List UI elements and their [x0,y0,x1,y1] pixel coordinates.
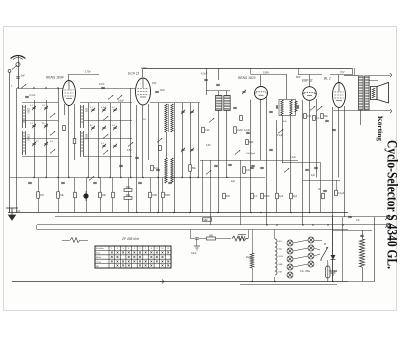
wire lamp link b [293,248,308,251]
mains switch S13 [320,243,328,260]
svg-text:100,2kpF: 100,2kpF [246,153,256,155]
wire to hook top [369,75,390,77]
resistor R9 [313,116,316,121]
resistor R15 20k [99,192,102,198]
resistor R18 963 [124,197,132,200]
wire V1 cathode pin [64,104,66,115]
wire component row drop x113 [112,178,114,213]
pick-up jack TA1 [386,215,390,219]
wire T1 secondary drop [226,111,228,178]
switch contact S14 [206,170,211,174]
wire chain drop [190,230,192,239]
capacitor C1 3nF [16,77,20,78]
capacitor C38 10nF [195,238,199,239]
resistor R30 [322,193,325,199]
coil L10 diode load [295,101,297,112]
resistor R8 1W [304,114,307,119]
wire bottom mains bus [12,281,348,283]
wire R33 lead right [80,240,88,242]
wire L12 bottom [274,277,276,282]
ground GND2 [194,246,200,250]
resistor R16 [112,192,115,198]
svg-text:4nF: 4nF [246,169,251,172]
switch contact S3c [50,149,55,153]
resistor R10 50k [321,114,324,119]
capacitor C41 [214,165,218,166]
coil L4 RF winding [81,105,84,128]
svg-text:0,1µF: 0,1µF [244,130,251,132]
switch contact S17 [128,142,133,146]
wire grid bus g2 [80,88,135,90]
fuse F1 0.3A [326,266,331,278]
wire branch x198 [198,103,200,178]
svg-text:MW: MW [249,141,254,144]
wire V5 pin drop right [344,106,346,217]
oscillator coil L9 [171,158,173,183]
svg-text:0,50: 0,50 [127,150,132,152]
switch contact S4 [108,95,113,99]
capacitor C34 on AVC bus [61,182,65,183]
wire V3 pin drop [260,100,262,161]
svg-text:19V: 19V [152,82,157,85]
mains terminal arrow [160,280,164,284]
wire branch x99 [98,103,100,178]
resistor R5 [261,193,264,199]
switch contact S15 [209,118,214,122]
volume potentiometer P1 [83,193,88,198]
duo-diode pentode V4 EBF 11 [303,87,317,101]
resistor R2 0.2M [234,127,237,134]
resistor R32 [159,146,162,151]
wire oscillator top rail [150,102,200,104]
output pentode V5 EBL 2 [333,83,346,108]
wire diode feed [332,215,334,255]
wire mid block top rail [80,102,132,104]
svg-text:5nF: 5nF [226,195,231,198]
wire V2 pin drop c [148,104,150,160]
coil data table [95,246,171,268]
svg-text:ECH 11: ECH 11 [128,72,139,76]
wire V2 pin drop a [136,105,138,213]
table column header marks [111,248,170,250]
resistor R26 [290,193,293,199]
output transformer T3 secondary [365,76,370,110]
wire branch x343 [342,217,344,282]
svg-text:BL 2: BL 2 [324,77,331,81]
trimmer capacitor C19 [181,110,185,114]
wire to output transformer [344,75,359,77]
wire branch x131 [130,88,132,178]
wire V3 anode rail [251,74,287,76]
capacitor C32 [332,129,336,130]
dial lamp LA4 [287,264,293,270]
capacitor C26 4nF [250,167,254,168]
wire anode supply stub 170v [69,74,99,76]
dial lamp LA8 [308,253,314,259]
field coil resistor R23 [250,253,254,268]
wire to R27 [336,180,338,190]
svg-text:0,25: 0,25 [206,145,211,147]
resistor R1 50k [189,165,192,172]
wire earth to rail [9,208,11,213]
wire T1 link [206,90,230,92]
antenna A1 [11,56,26,60]
switch contact S11 [317,106,322,110]
wire chassis rail 4 [37,229,348,231]
svg-text:630: 630 [84,108,87,113]
capacitor C31 [325,120,329,121]
svg-text:5300: 5300 [26,108,29,114]
wire V1 anode riser [68,74,70,81]
wire switch to fuse [327,260,329,262]
trimmer capacitor C7 [44,142,48,146]
capacitor C39 [348,216,352,217]
capacitor C23 [156,169,160,170]
wire branch x174 [174,103,176,213]
wire component row drop x38 [38,178,40,213]
svg-text:962: 962 [204,219,209,222]
svg-text:8µF: 8µF [293,195,298,198]
IF transformer T2 primary [281,100,283,115]
mains dropper resistor R24 [359,239,364,267]
wire V4 pin drop c [316,99,318,178]
wire V3 rail to HT [250,68,252,75]
capacitor C30 [297,105,298,109]
wire HT rail drop to V5 [352,68,354,75]
wire chain b [199,238,206,240]
coil L5 RF winding [81,131,84,157]
wire T2 secondary drop [290,115,292,213]
switch contact S5 [117,95,122,99]
wire branch x321 [320,163,322,213]
switch contact S16 [284,168,289,172]
svg-text:Cyclo-Selector S 4340 GL.: Cyclo-Selector S 4340 GL. [384,140,400,269]
wire branch x121 [120,103,122,178]
wire V1 cathode drop [68,106,70,178]
wire component row drop x75 [74,178,76,213]
switch contact S9 [278,129,283,133]
capacitor C49 [305,169,309,170]
wire component row drop x150 [150,178,152,213]
wire T2 primary drop [282,115,284,163]
dial lamp LA3 [287,256,293,262]
switch contact S10 [310,106,315,110]
wire AVC bus [10,177,266,179]
wire chain c [216,238,231,240]
wire AF rail [303,180,340,182]
wire diode out [332,260,334,282]
switch contact S8 [235,150,240,154]
capacitor C8 0.1nF [25,96,29,97]
wire V4 anode rail [298,74,322,76]
svg-text:13v...65ta: 13v...65ta [300,270,311,273]
trimmer capacitor C15 [113,126,117,130]
svg-text:3nF: 3nF [21,75,26,78]
svg-text:170v: 170v [85,70,91,74]
wire lamp link d [293,264,308,267]
wire tuning rail 2 [22,138,58,140]
capacitor C40 [360,235,364,236]
resistor R19 [149,192,152,198]
oscillator coil L8 [165,158,167,183]
svg-text:Mittel: Mittel [96,256,102,259]
coil L3 long-wave winding [23,131,26,155]
wire T3 bottom lead [360,110,362,125]
wire V5 pin drop [338,108,340,178]
output transformer T3 primary [359,76,364,110]
resistor R27 [335,190,338,196]
capacitor C44 [260,167,264,168]
svg-text:5W3: 5W3 [165,194,171,197]
wire branch x88 [88,103,90,178]
capacitor C25 [216,84,220,85]
wire chassis rail 3 [37,224,392,226]
resistor R35 [73,139,76,144]
wire speaker return [333,110,370,112]
switch contact S6a [103,116,108,120]
table header text [96,247,104,268]
oscillator coil L6 [165,104,167,132]
svg-text:171V: 171V [141,66,147,70]
trimmer capacitor C16 [102,144,106,148]
wire V5 top rail [330,74,352,76]
wire L6 core [168,104,170,132]
svg-text:51,0: 51,0 [154,167,159,170]
wire detector rail [200,160,298,162]
switch contact S6b [103,134,108,138]
rectifier diode D1 [331,255,336,260]
capacitor C47 [269,149,273,150]
switch contact S7 [157,138,162,142]
pick-up jack TA2 [386,223,390,227]
wire component row drop x128 [128,178,130,213]
svg-text:1W0: 1W0 [152,194,158,197]
wire to GND2 [196,239,198,247]
mains symbol W [239,236,245,240]
wire branch x211 [210,160,212,225]
resistor R7 [246,140,249,145]
svg-text:190V: 190V [263,71,269,75]
capacitor C46 [269,111,273,112]
IF transformer T2 secondary [290,100,292,115]
switch contact S12 [89,176,94,180]
svg-text:0,1µF: 0,1µF [338,192,345,195]
trimmer capacitor C5 [44,124,48,128]
wire branch x158 [158,103,160,213]
wire T1 secondary top lead [226,91,228,96]
wire lamps to switch [314,240,322,242]
wire mid block rail c [84,138,132,140]
resistor R13 10k [57,192,60,199]
wire lamps to switch c [314,254,320,256]
loudspeaker LS1 [371,83,389,104]
voltage selector coil L12 [275,239,277,275]
wire antenna lead-in [18,55,20,88]
svg-text:(7)V: (7)V [340,71,345,74]
wire branch x277 [276,120,278,213]
wire lamps to switch b [314,248,320,250]
resistor R12 1W [37,192,40,199]
wire V1 screen drop [74,104,76,160]
oscillator coil L7 [171,104,173,132]
ground GND1 with capacitor 3nF [6,208,18,220]
wire to hook bottom [370,110,390,112]
switch contact S6c [103,150,108,154]
trimmer capacitor C20 [190,110,194,114]
wire T1 primary top lead [218,91,220,96]
wire bottom rail 2 [240,284,337,286]
svg-text:960: 960 [126,186,131,189]
wire L12 top [274,230,276,240]
svg-text:0,1nF: 0,1nF [30,95,36,97]
wire T1 primary bottom drop [218,111,220,213]
wire AF takeoff [282,162,321,164]
wire chassis rail 2 [55,216,392,218]
capacitor C45 [323,190,327,191]
svg-text:ZF 455 kHz: ZF 455 kHz [121,237,139,241]
svg-text:C1b: C1b [205,129,210,132]
capacitor C51 [135,157,139,158]
capacitor C43 [251,165,255,166]
svg-text:47nF: 47nF [99,83,105,86]
capacitor C50 [314,167,318,168]
wire V5 cathode drop long [332,107,334,282]
trimmer capacitor C4 [32,124,36,128]
wire lamp link c [293,256,308,259]
svg-text:0,1µF: 0,1µF [277,135,284,137]
IF pentode V3 RENS 1823 [255,87,268,100]
svg-text:0,2M: 0,2M [237,129,242,132]
svg-text:Kurz: Kurz [96,252,101,255]
wire R33 lead left [62,240,70,242]
wire tuning top rail [22,102,58,104]
resistor R28 [202,127,205,133]
connector hook top [390,74,392,78]
wire padder drop [206,68,208,95]
filter choke L11 [232,236,248,241]
wire antenna branch down [16,88,18,213]
svg-text:6900: 6900 [84,134,87,140]
wire dropper top [362,230,364,239]
wire branch x34 [34,100,36,178]
wire V2 pin drop b [142,105,144,178]
svg-text:Lang: Lang [96,261,102,263]
resistor R3 [243,167,246,174]
wire component row drop x163 [162,178,164,213]
wire lamp link a [293,240,308,243]
triode-hexode V2 ECH 11 [136,78,151,105]
wire branch x190 [190,103,192,213]
capacitor C48 [233,107,237,108]
wire chain rise [248,230,250,239]
wire right return [374,217,376,282]
wire R23 down [252,268,254,282]
capacitor C36 on AVC bus [138,182,142,183]
svg-text:4µF: 4µF [279,195,284,198]
svg-text:2000: 2000 [264,195,270,198]
wire V5 grid riser [338,75,340,83]
wire V4 pin drop a [302,100,304,225]
wire V4 anode riser [309,75,311,87]
resistor R31 [151,165,154,171]
svg-text:10nF: 10nF [191,252,197,255]
trimmer capacitor C13 [91,126,95,130]
wire rail joint left [36,225,38,230]
trimmer capacitor C21 [181,148,185,152]
capacitor C18 12nF [155,91,159,92]
wire chain a [190,238,195,240]
capacitor C29 [276,105,277,109]
capacitor C35 on AVC bus [93,182,97,183]
wire speaker top link [369,80,378,82]
wire V3 cathode drop [250,100,252,213]
capacitor C42 [228,164,232,165]
wire component row drop x100 [100,178,102,213]
trimmer capacitor C27 [242,90,246,94]
dial lamp LA5 [287,272,293,278]
svg-text:RENS 1834: RENS 1834 [46,76,64,80]
wire branch x58 [58,88,60,178]
dial lamp LA1 [287,240,293,246]
svg-text:Schalter: Schalter [96,247,104,250]
dial lamp LA6 [308,237,314,243]
svg-text:4,2nF: 4,2nF [201,73,208,76]
wire branch x203 [202,160,204,213]
resistor R25 [276,193,279,199]
switch contact S3a [50,113,55,117]
resistor R17 960 [124,189,132,192]
wire HT rail 171V [143,68,352,70]
wire dropper bottom [362,267,364,282]
wire branch x110 [110,103,112,178]
trimmer capacitor C2 [32,106,36,110]
dial lamp LA2 [287,248,293,254]
wire T1 from HT rail [218,68,220,80]
ground GND3 [329,271,337,275]
wire mid block rail b [84,120,132,122]
svg-text:2µF: 2µF [231,181,236,183]
svg-text:4,8µF: 4,8µF [101,107,107,109]
svg-text:985: 985 [209,234,214,237]
dial lamp LA7 [308,245,314,251]
wire V4 pin drop b [309,100,311,212]
terminal E (earth post) [8,70,11,73]
capacitor C33 on AVC bus [28,182,32,183]
resistor R14 [74,192,77,198]
wire coil link [166,132,168,158]
resistor R29 [240,116,243,121]
svg-text:Körting: Körting [376,116,383,142]
hum-bucking resistor R33 [70,238,80,243]
dial lamp LA9 [308,261,314,267]
trimmer capacitor C6 [32,142,36,146]
IF transformer T1 primary [216,96,222,111]
wire HT to transformer [354,68,356,76]
wire component row drop x58 [58,178,60,213]
IF transformer T1 secondary [224,96,230,111]
wire component row drop x86 [86,178,88,213]
trimmer capacitor C11 [102,108,106,112]
resistor R20 [162,192,165,198]
wire branch x267 [266,97,268,225]
trimmer capacitor C22 [190,148,194,152]
capacitor C52 [119,165,123,166]
wire grid bus g1 [18,88,63,90]
resistor R21 962 [203,218,212,221]
resistor R6 [223,193,226,199]
svg-text:1Ω: 1Ω [143,119,146,121]
trimmer capacitor C17 [113,144,117,148]
